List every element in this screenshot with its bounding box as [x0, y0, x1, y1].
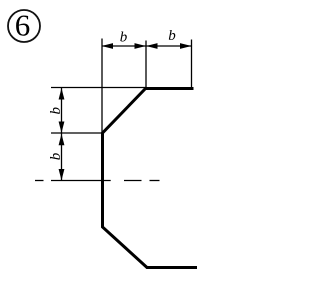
extension line top horizontal (flange top plane) — [51, 87, 146, 89]
extension line left vertical (web plane) — [101, 39, 103, 134]
arrowhead top middle (points right) — [135, 43, 147, 49]
centerline dash 4 — [150, 180, 160, 182]
svg-text:b: b — [48, 152, 64, 160]
figure number circle — [8, 10, 40, 42]
svg-text:b: b — [120, 29, 128, 45]
dimension line top horizontal — [102, 45, 192, 47]
arrowhead top right (points right) — [180, 43, 192, 49]
extension line middle vertical — [145, 41, 147, 89]
centerline dash 3 — [124, 180, 142, 182]
centerline long dash 2 (crosses web) — [51, 180, 111, 182]
extension line right vertical — [191, 40, 193, 89]
centerline dash 1 — [35, 180, 44, 182]
arrowhead left top (points up) — [59, 88, 65, 100]
svg-text:b: b — [48, 106, 64, 114]
svg-text:b: b — [168, 28, 176, 44]
arrowhead left lower-middle (points up) — [59, 134, 65, 146]
profile outline (bent plate) — [103, 89, 198, 268]
dimension line left vertical — [61, 88, 63, 181]
svg-text:6: 6 — [15, 8, 31, 43]
arrowhead left upper-middle (points down) — [59, 122, 65, 134]
arrowhead top middle (points left) — [146, 43, 158, 49]
arrowhead top left (points left) — [102, 43, 114, 49]
arrowhead left bottom (points down) — [59, 169, 65, 181]
extension line middle horizontal (corner level) — [51, 132, 103, 134]
